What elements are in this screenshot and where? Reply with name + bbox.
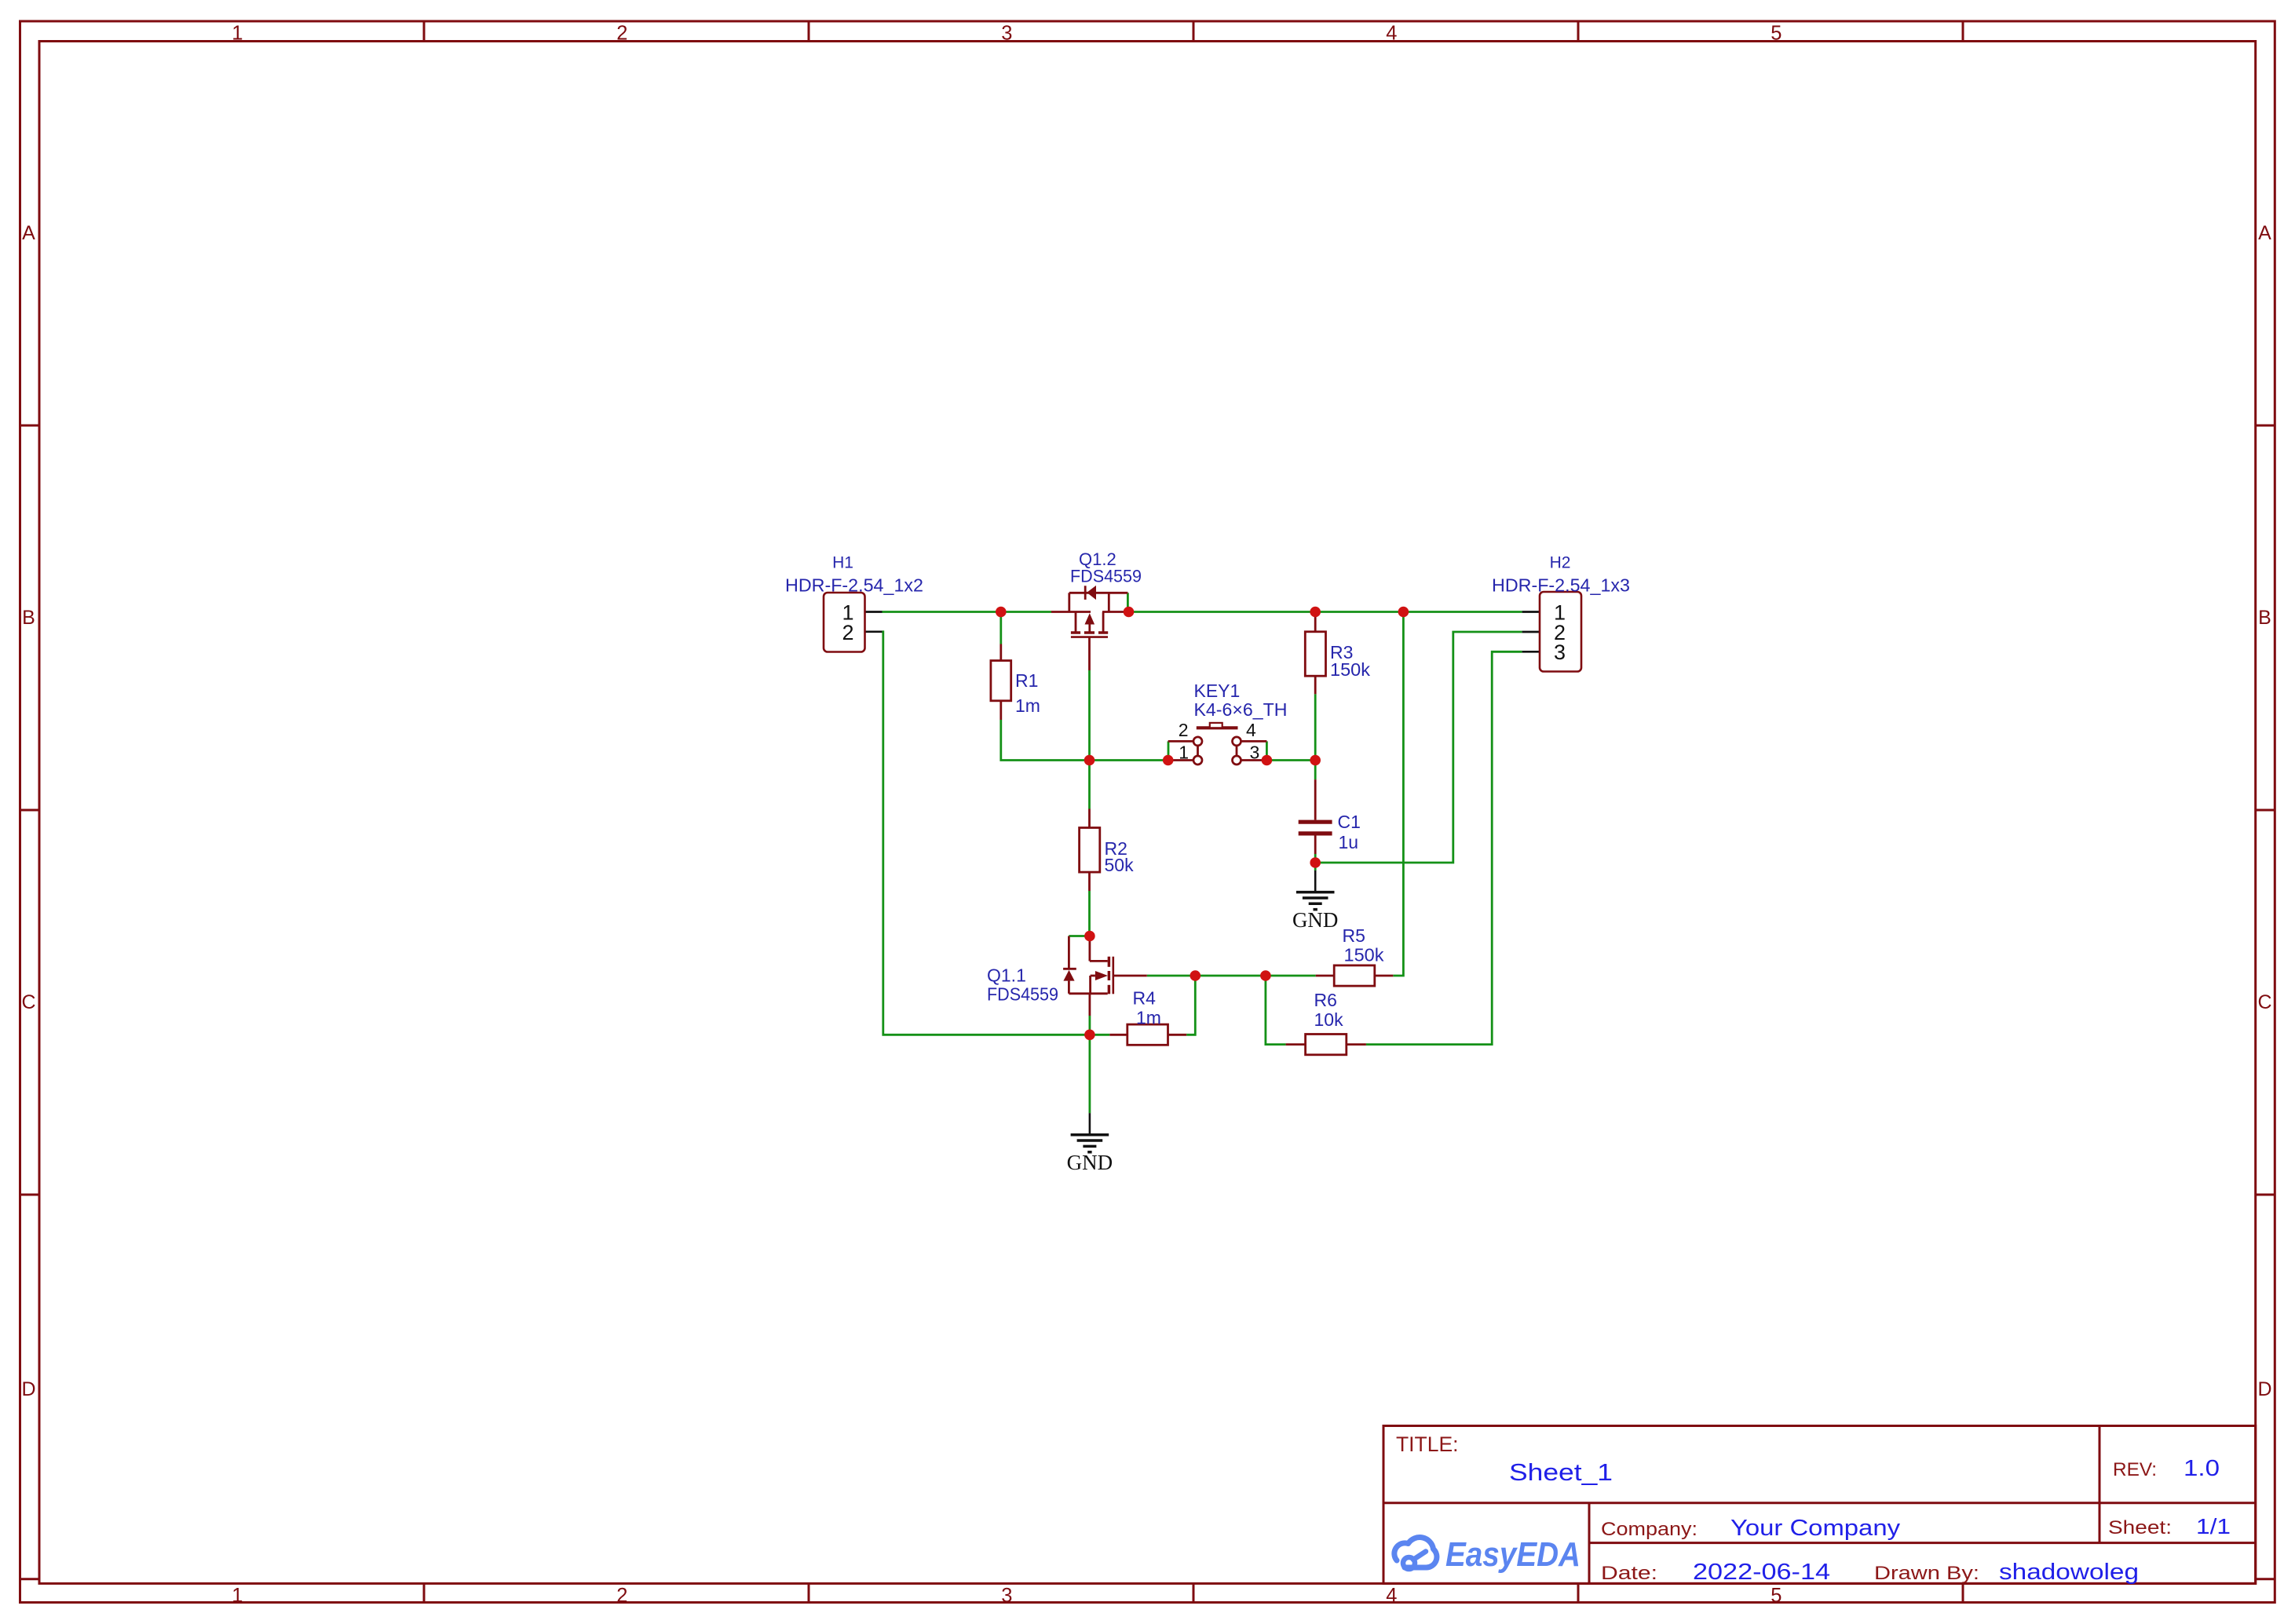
svg-text:C1: C1 xyxy=(1338,812,1361,832)
svg-text:1.0: 1.0 xyxy=(2184,1456,2220,1481)
svg-text:R5: R5 xyxy=(1343,925,1365,946)
svg-text:C: C xyxy=(2257,991,2271,1013)
svg-text:Sheet_1: Sheet_1 xyxy=(1509,1458,1613,1486)
svg-text:1: 1 xyxy=(232,23,243,45)
svg-text:FDS4559: FDS4559 xyxy=(1070,567,1142,586)
svg-text:R1: R1 xyxy=(1015,670,1038,691)
svg-text:D: D xyxy=(21,1378,35,1400)
svg-text:2: 2 xyxy=(1179,720,1189,740)
svg-text:A: A xyxy=(2258,222,2271,244)
svg-text:3: 3 xyxy=(1250,743,1260,763)
svg-text:Date:: Date: xyxy=(1601,1563,1657,1584)
svg-text:1m: 1m xyxy=(1136,1008,1161,1028)
svg-text:2022-06-14: 2022-06-14 xyxy=(1693,1560,1830,1585)
svg-text:TITLE:: TITLE: xyxy=(1396,1432,1459,1456)
svg-text:A: A xyxy=(22,222,35,244)
svg-text:1: 1 xyxy=(232,1585,243,1607)
svg-text:REV:: REV: xyxy=(2113,1459,2157,1480)
svg-text:3: 3 xyxy=(1001,23,1012,45)
svg-text:D: D xyxy=(2257,1378,2271,1400)
svg-text:10k: 10k xyxy=(1314,1009,1344,1030)
svg-text:1m: 1m xyxy=(1015,695,1040,716)
svg-text:4: 4 xyxy=(1386,1585,1397,1607)
svg-text:K4-6×6_TH: K4-6×6_TH xyxy=(1194,699,1288,720)
svg-text:shadowoleg: shadowoleg xyxy=(1999,1560,2139,1585)
svg-text:H1: H1 xyxy=(832,554,853,572)
svg-text:HDR-F-2.54_1x3: HDR-F-2.54_1x3 xyxy=(1492,575,1630,596)
svg-text:Q1.1: Q1.1 xyxy=(987,965,1026,986)
svg-text:C: C xyxy=(21,991,35,1013)
svg-text:R6: R6 xyxy=(1314,990,1337,1010)
svg-text:2: 2 xyxy=(616,23,627,45)
svg-text:Sheet:: Sheet: xyxy=(2108,1517,2172,1538)
svg-text:B: B xyxy=(22,607,35,629)
svg-text:2: 2 xyxy=(616,1585,627,1607)
svg-text:1: 1 xyxy=(1179,743,1189,763)
svg-text:H2: H2 xyxy=(1550,554,1571,572)
svg-text:4: 4 xyxy=(1386,23,1397,45)
svg-text:B: B xyxy=(2258,607,2271,629)
svg-text:3: 3 xyxy=(1001,1585,1012,1607)
svg-text:GND: GND xyxy=(1067,1151,1113,1174)
svg-text:150k: 150k xyxy=(1344,945,1385,965)
svg-text:HDR-F-2.54_1x2: HDR-F-2.54_1x2 xyxy=(785,575,923,596)
svg-text:GND: GND xyxy=(1292,908,1339,932)
svg-text:5: 5 xyxy=(1771,23,1782,45)
svg-text:KEY1: KEY1 xyxy=(1194,681,1241,701)
svg-text:EasyEDA: EasyEDA xyxy=(1445,1535,1581,1574)
svg-text:Company:: Company: xyxy=(1601,1519,1697,1540)
svg-text:150k: 150k xyxy=(1330,659,1371,680)
svg-text:R4: R4 xyxy=(1133,988,1157,1009)
svg-text:FDS4559: FDS4559 xyxy=(987,984,1058,1005)
svg-text:5: 5 xyxy=(1771,1585,1782,1607)
svg-text:50k: 50k xyxy=(1105,855,1135,875)
svg-text:Drawn By:: Drawn By: xyxy=(1874,1563,1979,1584)
svg-text:Your Company: Your Company xyxy=(1730,1516,1901,1541)
svg-text:2: 2 xyxy=(842,621,853,644)
svg-text:3: 3 xyxy=(1554,640,1566,664)
svg-text:4: 4 xyxy=(1246,720,1256,740)
svg-text:1u: 1u xyxy=(1339,832,1359,852)
svg-text:1/1: 1/1 xyxy=(2196,1514,2231,1538)
